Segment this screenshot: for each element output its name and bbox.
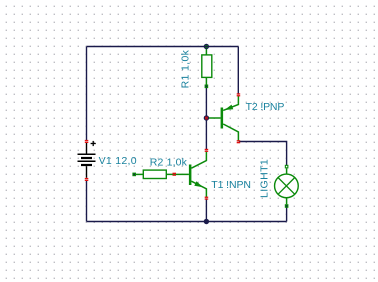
svg-text:R2 1,0k: R2 1,0k [150,157,188,169]
node: junction dot at T1 emitter / bottom rail [204,219,209,224]
wire: left rail from top rail down to battery + pin [86,47,88,141]
wire: bottom rail [87,221,287,223]
svg-text:T2 !PNP: T2 !PNP [246,101,285,113]
pin marker: T2 collector [237,140,241,143]
svg-text:V1 12,0: V1 12,0 [99,155,137,167]
wire: top rail from battery + to R1/T2 branch [87,46,239,48]
resistor R1 [202,45,212,88]
wire: T1 emitter pin down to bottom rail [205,199,207,221]
wire: R1 bottom pad down to T2 base node [205,87,207,118]
lamp LIGHT1 [275,165,299,208]
pin marker: T1 emitter [205,197,209,200]
node: junction dot at top rail / R1 [204,44,210,49]
wire: top rail right corner down to T2 emitter pin [237,47,239,94]
wire: left rail from battery - pin down to bottom rail [86,181,88,222]
wire: T2 collector pin right and down to LIGHT1 top pad [239,142,287,166]
wire: LIGHT1 bottom pad down to bottom rail [286,207,288,222]
pin marker: T1 collector [205,149,209,152]
svg-text:R1 1,0k: R1 1,0k [180,49,192,88]
pin marker: battery + pin [85,140,89,143]
wire: T2 base node down to T1 collector pin [205,118,207,150]
pin marker: R2 right / T1 base junction [173,173,177,176]
svg-text:T1 !NPN: T1 !NPN [211,179,251,191]
node: junction dot at T2 base [204,115,209,120]
transistor T2 (PNP) [206,96,238,141]
pin marker: battery - pin [85,178,89,181]
pin marker: T2 base [205,117,208,120]
svg-text:LIGHT1: LIGHT1 [258,159,270,198]
pin marker: T2 emitter [237,93,241,96]
battery V1 [78,141,96,178]
transistor T1 (NPN) [189,152,207,197]
resistor R2 [132,170,189,178]
